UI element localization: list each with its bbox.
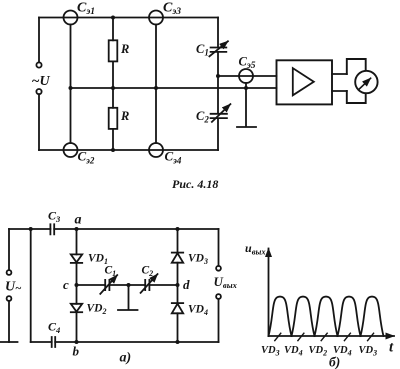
node Сэ5 ground junction — [244, 86, 248, 90]
capacitor Сэ2 — [64, 143, 78, 157]
svg-text:Сэ5: Сэ5 — [239, 55, 256, 72]
svg-text:~U: ~U — [32, 74, 51, 89]
svg-text:b: b — [73, 344, 80, 359]
capacitor C2 variable — [211, 114, 227, 118]
wire branch 1 vertical — [70, 25, 72, 144]
meter dial — [355, 71, 377, 93]
terminal U~ upper — [7, 270, 12, 275]
svg-text:d: d — [183, 277, 190, 292]
waveform x-axis — [269, 335, 395, 337]
node ground junction — [127, 283, 131, 287]
resistor R (upper) — [109, 40, 118, 61]
wire VD1 to c — [76, 263, 78, 285]
svg-text:t: t — [389, 340, 394, 356]
wire amp to meter lower — [332, 90, 347, 92]
wire top to VD3 — [177, 229, 179, 253]
waveform y-axis — [268, 249, 270, 337]
svg-text:Сэ1: Сэ1 — [77, 1, 95, 18]
wire c-d bus — [77, 284, 178, 286]
wire node to amplifier upper input — [218, 75, 277, 77]
diode VD2 — [71, 304, 82, 312]
wire left outer with source terminals — [8, 229, 10, 270]
capacitor C2 variable (lower) — [145, 280, 149, 290]
wire to ground — [8, 301, 10, 342]
wire bottom bus (upper circuit) — [39, 149, 218, 151]
wire VD2 to b — [76, 312, 78, 342]
node R branch top — [111, 16, 115, 20]
op-amp U1 triangle — [293, 68, 314, 95]
terminal Uвых lower — [216, 294, 221, 299]
wire right branch between C1 and node — [217, 52, 219, 113]
node C1-C2 junction — [216, 74, 220, 78]
svg-text:VD4: VD4 — [188, 304, 208, 318]
svg-text:Uвых: Uвых — [214, 274, 238, 290]
svg-text:VD3: VD3 — [261, 345, 280, 358]
capacitor Сэ4 — [149, 143, 163, 157]
ground (lower circuit) — [118, 285, 138, 310]
diode VD3 — [172, 252, 183, 254]
svg-text:VD4: VD4 — [284, 345, 303, 358]
wire right branch lower — [217, 119, 219, 150]
meter bracket — [347, 59, 366, 103]
svg-text:VD3: VD3 — [188, 253, 208, 267]
diode VD1 — [71, 254, 82, 262]
op-amp U1 box — [277, 60, 333, 104]
diode VD4 — [172, 302, 183, 304]
capacitor C4 — [52, 337, 56, 347]
wire c to VD2 — [76, 285, 78, 304]
wire d to VD4 — [177, 285, 179, 303]
svg-text:VD2: VD2 — [87, 303, 107, 317]
wire a to VD1 — [76, 229, 78, 254]
ground (upper circuit) — [237, 88, 256, 127]
svg-text:С1: С1 — [105, 265, 117, 279]
svg-text:а): а) — [120, 351, 132, 366]
wire R branch lower — [112, 129, 114, 150]
wire middle bus to amplifier — [71, 87, 277, 89]
svg-text:Сэ2: Сэ2 — [78, 149, 95, 166]
svg-text:С4: С4 — [48, 320, 60, 336]
wire right outer with output terminals — [218, 229, 220, 266]
svg-text:a: a — [75, 213, 82, 228]
svg-text:VD2: VD2 — [309, 345, 328, 358]
capacitor Сэ3 — [149, 11, 163, 25]
wire top bus (upper circuit) — [39, 17, 218, 19]
wire R branch upper — [112, 18, 114, 41]
ground (source) — [1, 341, 18, 343]
resistor R (lower) — [109, 108, 118, 129]
svg-text:С3: С3 — [48, 209, 61, 225]
wire right branch upper — [217, 18, 219, 48]
svg-text:Сэ3: Сэ3 — [163, 1, 181, 18]
svg-text:R: R — [120, 42, 129, 56]
node c — [75, 283, 79, 287]
wire output lower — [218, 299, 220, 342]
svg-text:U~: U~ — [5, 280, 22, 295]
svg-text:Сэ4: Сэ4 — [165, 149, 182, 166]
svg-text:С1: С1 — [196, 42, 209, 58]
node left splitter — [29, 227, 33, 231]
wire left inner vertical — [30, 229, 32, 342]
svg-text:б): б) — [329, 355, 340, 369]
node R branch mid — [111, 86, 115, 90]
terminal upper — [36, 62, 41, 67]
svg-text:R: R — [120, 109, 129, 123]
node junction branch1-mid — [69, 86, 73, 90]
node d — [176, 283, 180, 287]
node junction branch3-mid — [154, 86, 158, 90]
terminal Uвых upper — [216, 266, 221, 271]
terminal U~ lower — [7, 296, 12, 301]
terminal lower — [36, 89, 41, 94]
wire VD3 to d — [177, 263, 179, 285]
svg-text:Рис. 4.18: Рис. 4.18 — [172, 177, 218, 191]
node bottom right — [176, 340, 180, 344]
wire bottom bus (lower circuit) — [31, 341, 219, 343]
node R branch bottom — [111, 148, 115, 152]
node a — [75, 227, 79, 231]
meter needle — [359, 78, 370, 89]
svg-text:С2: С2 — [142, 265, 154, 279]
wire amp to meter upper — [332, 73, 347, 75]
wire VD4 to bottom — [177, 313, 179, 342]
wire left branch with source terminals — [38, 18, 40, 151]
capacitor C1 variable — [211, 48, 227, 52]
wire top bus (lower circuit) — [9, 228, 219, 230]
wire branch 3 vertical — [155, 25, 157, 144]
waveform axis slashes — [275, 333, 374, 340]
svg-text:uвых: uвых — [245, 241, 266, 257]
svg-text:С2: С2 — [196, 109, 209, 125]
capacitor Сэ5 — [239, 69, 253, 83]
svg-text:c: c — [63, 277, 69, 292]
capacitor Сэ1 — [64, 11, 78, 25]
wire R branch middle — [112, 61, 114, 107]
node b — [75, 340, 79, 344]
wire Сэ5 stub — [245, 83, 247, 88]
capacitor C3 — [50, 224, 54, 234]
svg-text:VD3: VD3 — [359, 345, 378, 358]
node top right — [176, 227, 180, 231]
waveform humps — [269, 297, 384, 336]
capacitor C1 variable (lower) — [105, 280, 109, 290]
